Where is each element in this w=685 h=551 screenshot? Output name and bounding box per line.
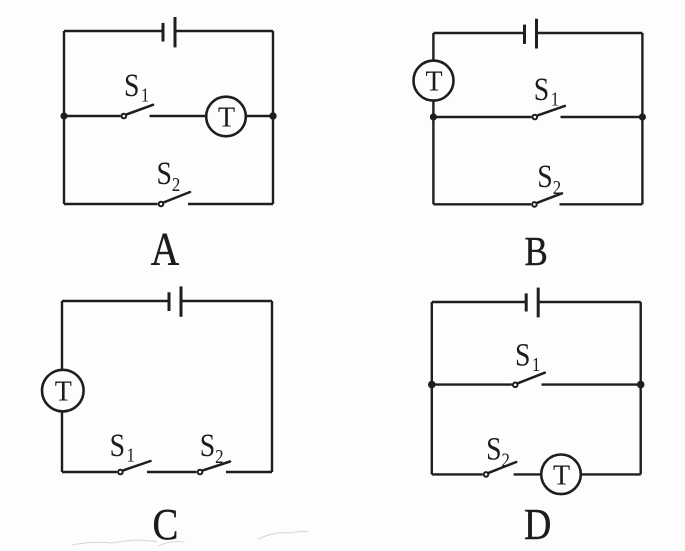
- wire: D bottom right segment: [581, 473, 641, 475]
- node: A middle-left junction: [60, 112, 67, 119]
- wire: C right side: [271, 301, 273, 472]
- switch S1 (A): pivot: [122, 114, 127, 119]
- switch S2 (D): lever: [489, 462, 516, 473]
- switch S2 (B): pivot: [532, 202, 537, 207]
- svg-text:S1: S1: [124, 67, 149, 106]
- switch S2 (B): lever: [537, 193, 562, 203]
- wire: B middle branch left segment: [433, 116, 531, 118]
- svg-text:T: T: [425, 67, 442, 98]
- svg-text:S1: S1: [534, 71, 559, 110]
- svg-text:S2: S2: [200, 427, 224, 468]
- svg-text:S2: S2: [486, 430, 510, 471]
- switch S1 (A): lever: [127, 105, 153, 115]
- battery cell D: long plate: [537, 288, 540, 318]
- battery cell B: short plate: [523, 25, 526, 44]
- battery cell A: long plate: [174, 17, 177, 47]
- wire: B middle branch right segment: [561, 116, 643, 118]
- wire: D bottom left segment: [432, 473, 483, 475]
- switch S1 (C): pivot: [118, 470, 123, 475]
- wire: A bottom left segment: [64, 203, 158, 205]
- switch S2 (C): pivot: [198, 470, 203, 475]
- wire: D middle branch right segment: [542, 383, 641, 385]
- switch S1 (B): pivot: [533, 115, 538, 120]
- battery cell C: long plate: [180, 286, 183, 316]
- svg-text:T: T: [55, 377, 72, 408]
- node: A middle-right junction: [269, 112, 276, 119]
- switch S2 (A): lever: [164, 192, 190, 202]
- switch S1 (D): pivot: [513, 383, 518, 388]
- wire: C bottom right segment: [226, 471, 272, 473]
- wire: A top right segment: [175, 30, 273, 32]
- wire: A middle segment between S1 and meter: [150, 115, 207, 117]
- wire: A bottom right segment: [188, 203, 273, 205]
- switch S1 (D): lever: [518, 373, 545, 384]
- wire: B right side: [641, 33, 643, 204]
- switch S1 (C): lever: [123, 461, 150, 470]
- meter T (A): circle: [206, 97, 246, 137]
- wire: A right side: [272, 31, 274, 204]
- battery cell C: short plate: [168, 292, 171, 311]
- battery cell B: long plate: [535, 19, 538, 49]
- wire: B left top segment: [432, 33, 434, 61]
- wire: B left bottom segment: [432, 101, 434, 205]
- node: D middle-right junction: [637, 381, 645, 389]
- switch S1 (B): lever: [538, 106, 565, 116]
- wire: B top left segment: [433, 32, 524, 34]
- svg-text:S2: S2: [537, 158, 561, 199]
- switch S2 (D): pivot: [484, 472, 489, 477]
- wire: C top left segment: [62, 300, 169, 302]
- svg-text:S2: S2: [157, 155, 181, 196]
- wire: C bottom left segment: [62, 471, 117, 473]
- wire: D middle branch left segment: [432, 383, 512, 385]
- switch S2 (C): lever: [203, 462, 230, 471]
- wire: D right side: [640, 302, 642, 474]
- svg-text:B: B: [524, 229, 547, 274]
- wire: A middle branch left segment: [64, 115, 121, 117]
- svg-text:T: T: [218, 103, 235, 134]
- svg-text:S1: S1: [110, 427, 135, 466]
- svg-text:A: A: [151, 223, 180, 275]
- node: B middle-right junction: [639, 113, 646, 120]
- wire: B top right segment: [537, 32, 643, 34]
- wire: B bottom left segment: [433, 203, 531, 205]
- meter T (D): circle: [541, 455, 581, 495]
- wire: C left top segment: [61, 301, 63, 370]
- meter T (B): circle: [414, 61, 454, 101]
- wire: C bottom middle segment: [147, 471, 197, 473]
- wire: C top right segment: [181, 300, 272, 302]
- wire: B bottom right segment: [560, 203, 643, 205]
- wire: D top left segment: [432, 301, 526, 303]
- wire: D top right segment: [538, 301, 641, 303]
- svg-text:T: T: [553, 460, 570, 491]
- wire: A left side: [63, 31, 65, 204]
- node: B middle-left junction: [430, 113, 437, 120]
- wire: A top left segment: [64, 30, 163, 32]
- battery cell D: short plate: [525, 293, 528, 311]
- node: D middle-left junction: [428, 381, 436, 389]
- switch S2 (A): pivot: [159, 202, 164, 207]
- wire: D bottom middle segment: [514, 473, 542, 475]
- svg-text:D: D: [524, 499, 551, 548]
- svg-text:S1: S1: [515, 336, 540, 375]
- wire: A middle branch right segment: [246, 115, 273, 117]
- battery cell A: short plate: [162, 23, 165, 42]
- wire: D left side: [431, 302, 433, 474]
- wire: C left bottom segment: [61, 411, 63, 472]
- meter T (C): circle: [42, 370, 84, 412]
